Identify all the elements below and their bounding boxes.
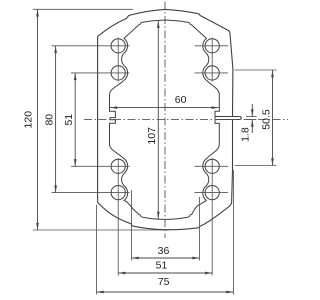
hole 7	[205, 159, 219, 173]
horizontal centerline	[84, 118, 288, 120]
hole 1	[111, 39, 125, 53]
hole row center/extension lines	[52, 45, 130, 47]
dimension 75 overall width	[97, 291, 234, 293]
part outer profile	[98, 9, 242, 229]
dimension 1.8 tab thickness	[251, 104, 253, 117]
dimension 51 hole columns	[118, 272, 212, 274]
tab profile lines	[215, 117, 233, 120]
hole 2	[111, 66, 125, 80]
dimension 80 outer hole rows	[55, 46, 57, 193]
svg-text:75: 75	[158, 276, 170, 288]
hole 4	[111, 186, 125, 200]
svg-text:51: 51	[63, 114, 75, 126]
hole 5	[205, 39, 219, 53]
svg-text:51: 51	[156, 259, 168, 271]
extension lines	[33, 8, 133, 10]
hole 8	[205, 186, 219, 200]
svg-text:80: 80	[44, 114, 56, 126]
svg-text:50.5: 50.5	[261, 109, 273, 130]
dimension 120 overall height	[37, 9, 39, 230]
hole 3	[111, 159, 125, 173]
dimension 51 inner hole rows	[74, 73, 76, 166]
hole 6	[205, 66, 219, 80]
svg-text:107: 107	[146, 127, 158, 145]
svg-text:120: 120	[22, 111, 34, 129]
dimension 50.5 right edge	[272, 70, 274, 166]
dimension 36 bottom steps	[132, 257, 200, 259]
vertical centerline	[164, 2, 166, 239]
svg-text:36: 36	[158, 245, 170, 257]
svg-text:1.8: 1.8	[240, 127, 252, 142]
part inner contour	[110, 20, 220, 219]
svg-text:60: 60	[175, 94, 187, 106]
dimension 107 inner height	[157, 21, 159, 219]
dimension 60 inner width	[110, 107, 219, 109]
hole column center/extension lines	[117, 38, 119, 82]
